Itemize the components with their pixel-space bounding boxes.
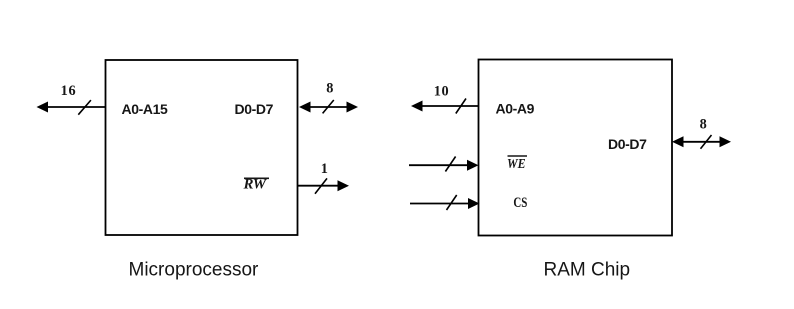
wire: RW control line (1 bit, arrow right) xyxy=(298,180,350,191)
pin label RW (active-low, overline) xyxy=(243,177,270,193)
svg-text:D0-D7: D0-D7 xyxy=(608,136,647,152)
bus-width slash (10) xyxy=(456,99,466,114)
pin label WE (active-low, overline) xyxy=(507,156,527,172)
wire: address bus from microprocessor (16 bits, arrow left) xyxy=(37,102,106,113)
bus-width slash (8, microprocessor) xyxy=(323,100,334,113)
svg-text:RAM Chip: RAM Chip xyxy=(544,260,631,281)
svg-text:10: 10 xyxy=(434,84,449,100)
bus-width slash (16) xyxy=(78,100,91,115)
svg-text:A0-A15: A0-A15 xyxy=(122,101,168,117)
wire: data bus at RAM (8 bits, double arrow) xyxy=(672,136,731,147)
svg-text:Microprocessor: Microprocessor xyxy=(129,260,260,281)
RAM chip U2 box xyxy=(479,60,673,236)
svg-text:CS: CS xyxy=(513,195,527,211)
svg-text:A0-A9: A0-A9 xyxy=(496,101,535,117)
wire: CS control line into RAM (arrow right) xyxy=(410,198,480,209)
bus-width slash (1) xyxy=(315,178,327,193)
svg-text:16: 16 xyxy=(61,83,77,99)
svg-text:8: 8 xyxy=(700,116,707,132)
bus-width slash (WE) xyxy=(445,157,455,172)
bus-width slash (8, RAM) xyxy=(701,135,712,149)
svg-text:D0-D7: D0-D7 xyxy=(235,101,274,117)
svg-text:8: 8 xyxy=(326,81,333,97)
wire: data bus at microprocessor (8 bits, double arrow) xyxy=(299,102,358,113)
bus-width slash (CS) xyxy=(447,195,457,210)
svg-text:WE: WE xyxy=(507,157,526,172)
wire: address bus into RAM (10 bits, arrow left) xyxy=(411,101,479,112)
svg-text:1: 1 xyxy=(321,161,328,177)
microprocessor U1 box xyxy=(106,60,298,235)
wire: WE control line into RAM (arrow right) xyxy=(409,160,479,171)
